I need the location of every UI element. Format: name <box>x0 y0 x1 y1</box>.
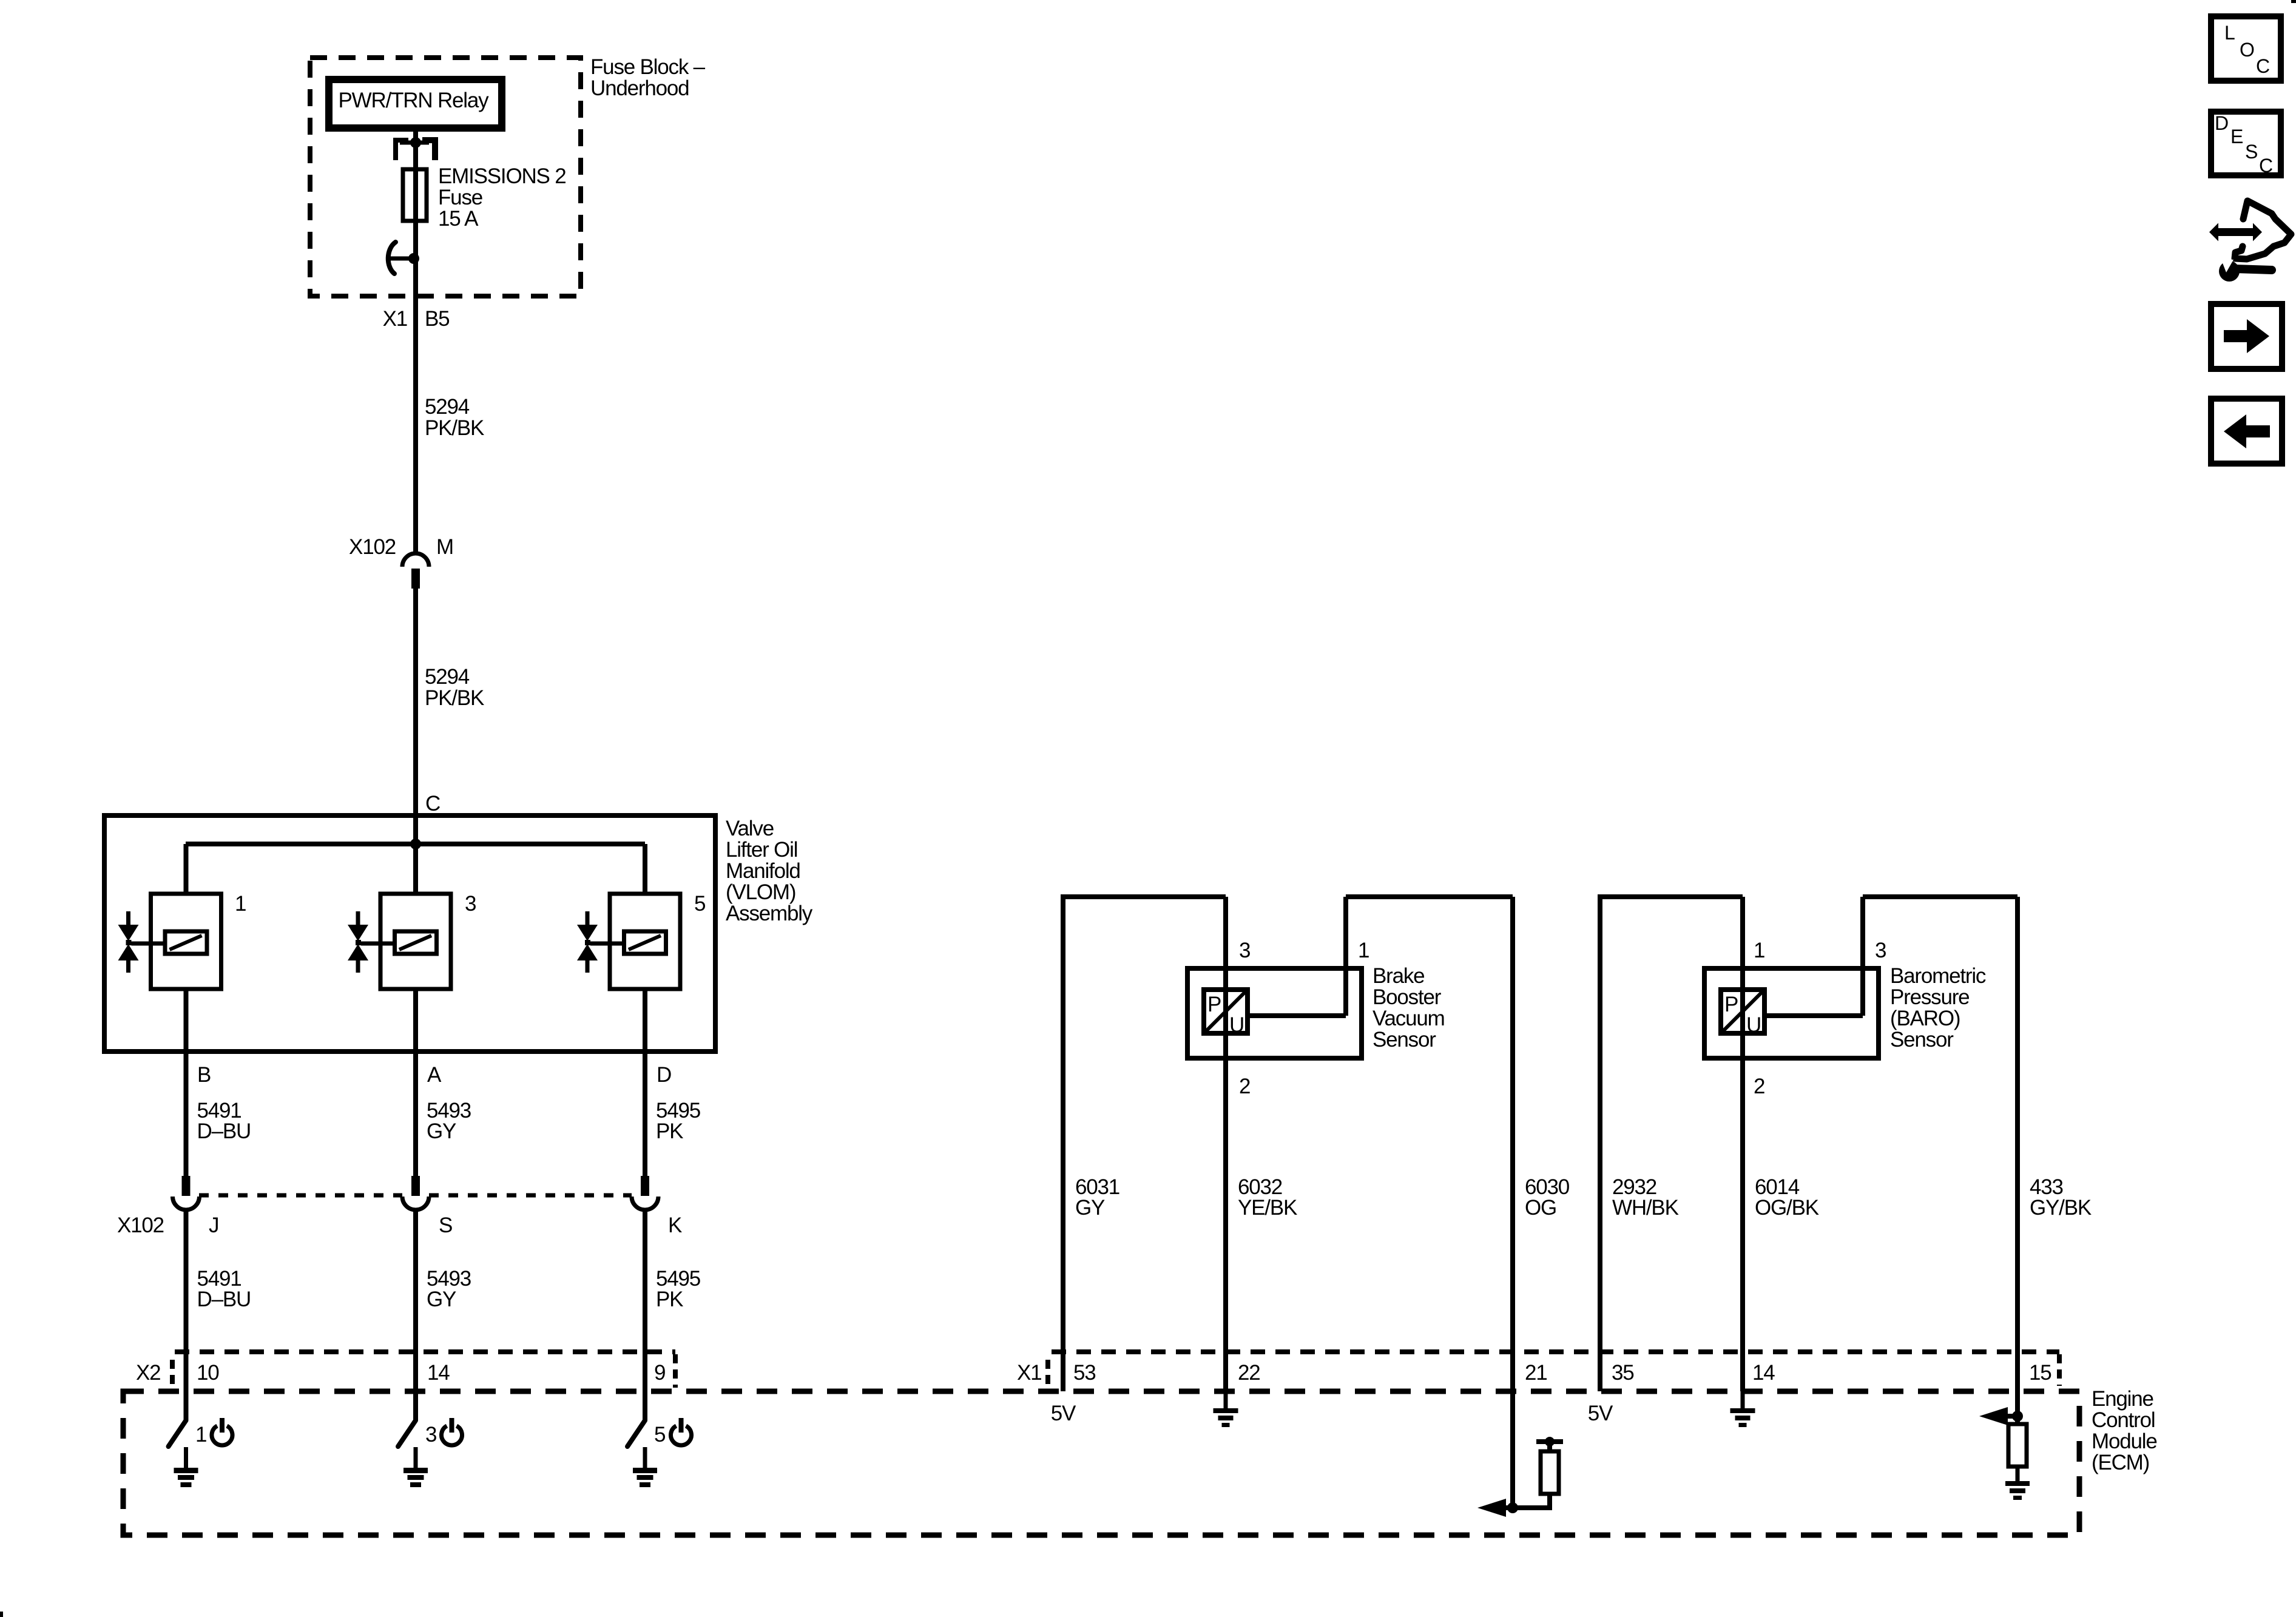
svg-text:5: 5 <box>654 1423 665 1447</box>
svg-text:EMISSIONS 2: EMISSIONS 2 <box>438 164 566 188</box>
svg-text:WH/BK: WH/BK <box>1612 1196 1679 1220</box>
svg-text:OG: OG <box>1525 1196 1556 1220</box>
svg-text:53: 53 <box>1073 1361 1096 1385</box>
svg-text:Pressure: Pressure <box>1890 985 1969 1009</box>
svg-text:D: D <box>657 1063 671 1087</box>
svg-text:B: B <box>197 1063 211 1087</box>
svg-text:3: 3 <box>465 892 476 916</box>
svg-text:C: C <box>2259 155 2272 177</box>
svg-text:Sensor: Sensor <box>1890 1028 1954 1052</box>
svg-text:GY: GY <box>427 1288 456 1311</box>
svg-text:5V: 5V <box>1051 1402 1076 1425</box>
svg-text:D: D <box>2215 112 2228 134</box>
svg-text:1: 1 <box>1754 939 1764 962</box>
svg-text:9: 9 <box>654 1361 665 1385</box>
svg-text:14: 14 <box>1752 1361 1775 1385</box>
svg-text:10: 10 <box>197 1361 219 1385</box>
svg-text:PK/BK: PK/BK <box>425 686 484 710</box>
svg-text:(VLOM): (VLOM) <box>726 880 795 904</box>
svg-text:S: S <box>2245 141 2257 163</box>
svg-text:C: C <box>2256 55 2269 77</box>
svg-text:Manifold: Manifold <box>726 859 800 883</box>
svg-text:Valve: Valve <box>726 817 774 840</box>
svg-text:21: 21 <box>1525 1361 1547 1385</box>
svg-text:5V: 5V <box>1588 1402 1613 1425</box>
svg-text:5294: 5294 <box>425 665 470 689</box>
svg-text:X1: X1 <box>1017 1361 1041 1385</box>
svg-text:GY: GY <box>427 1119 456 1143</box>
svg-text:GY/BK: GY/BK <box>2030 1196 2092 1220</box>
svg-text:PK: PK <box>656 1288 683 1311</box>
svg-text:PK: PK <box>656 1119 683 1143</box>
svg-text:K: K <box>668 1214 682 1237</box>
svg-text:3: 3 <box>425 1423 436 1447</box>
svg-text:15 A: 15 A <box>438 207 479 231</box>
svg-text:Booster: Booster <box>1373 985 1442 1009</box>
svg-text:Brake: Brake <box>1373 964 1424 988</box>
svg-text:3: 3 <box>1875 939 1886 962</box>
svg-text:Fuse: Fuse <box>438 186 482 209</box>
svg-text:GY: GY <box>1075 1196 1105 1220</box>
svg-text:2: 2 <box>1754 1075 1764 1098</box>
svg-text:Control: Control <box>2092 1408 2155 1432</box>
svg-text:C: C <box>425 792 440 815</box>
svg-text:14: 14 <box>427 1361 450 1385</box>
svg-text:X102: X102 <box>349 535 396 559</box>
svg-text:D–BU: D–BU <box>197 1288 251 1311</box>
svg-text:(BARO): (BARO) <box>1890 1007 1960 1030</box>
svg-text:X1: X1 <box>383 307 407 331</box>
svg-text:Engine: Engine <box>2092 1387 2153 1411</box>
svg-text:22: 22 <box>1238 1361 1260 1385</box>
svg-text:2: 2 <box>1239 1075 1250 1098</box>
svg-text:M: M <box>436 535 453 559</box>
svg-text:YE/BK: YE/BK <box>1238 1196 1297 1220</box>
svg-text:Fuse Block –: Fuse Block – <box>590 55 706 79</box>
svg-text:Underhood: Underhood <box>590 76 689 100</box>
svg-text:PWR/TRN Relay: PWR/TRN Relay <box>339 89 490 112</box>
svg-text:1: 1 <box>195 1423 206 1447</box>
svg-text:OG/BK: OG/BK <box>1755 1196 1819 1220</box>
svg-text:Vacuum: Vacuum <box>1373 1007 1445 1030</box>
svg-text:L: L <box>2224 22 2235 44</box>
svg-text:1: 1 <box>1358 939 1369 962</box>
svg-text:5294: 5294 <box>425 395 470 419</box>
svg-text:Lifter Oil: Lifter Oil <box>726 838 797 862</box>
svg-text:Barometric: Barometric <box>1890 964 1986 988</box>
svg-text:S: S <box>439 1214 452 1237</box>
svg-text:X2: X2 <box>136 1361 160 1385</box>
svg-text:Module: Module <box>2092 1430 2157 1453</box>
svg-text:Sensor: Sensor <box>1373 1028 1436 1052</box>
svg-text:E: E <box>2230 126 2243 147</box>
svg-text:1: 1 <box>235 892 246 916</box>
svg-text:A: A <box>427 1063 442 1087</box>
svg-text:D–BU: D–BU <box>197 1119 251 1143</box>
svg-text:(ECM): (ECM) <box>2092 1451 2149 1474</box>
svg-text:PK/BK: PK/BK <box>425 416 484 440</box>
svg-text:Assembly: Assembly <box>726 902 813 925</box>
svg-text:15: 15 <box>2029 1361 2051 1385</box>
svg-text:J: J <box>209 1214 218 1237</box>
svg-text:X102: X102 <box>117 1214 164 1237</box>
svg-text:B5: B5 <box>425 307 449 331</box>
svg-text:O: O <box>2240 39 2254 61</box>
svg-text:3: 3 <box>1239 939 1250 962</box>
svg-text:5: 5 <box>694 892 705 916</box>
svg-text:35: 35 <box>1612 1361 1634 1385</box>
